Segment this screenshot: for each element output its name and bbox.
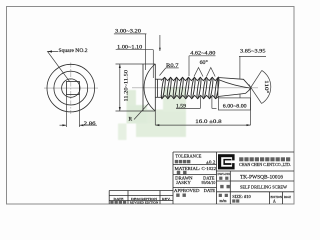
svg-text:110°: 110° [263, 80, 268, 93]
head diameter extension lines [116, 63, 156, 65]
svg-text:SELF DRILLING SCREW: SELF DRILLING SCREW [240, 184, 288, 189]
svg-text:PAGE: PAGE [284, 195, 291, 199]
svg-text:±0.2: ±0.2 [206, 159, 215, 164]
thread crest zigzag top [161, 77, 218, 80]
company logo [218, 154, 236, 169]
head bearing face [154, 64, 156, 111]
text 修改日期 (CJK simulated) [110, 201, 113, 204]
vertical centerline [70, 63, 72, 115]
svg-text:6.00~8.00: 6.00~8.00 [223, 105, 247, 110]
svg-text:R: R [129, 117, 133, 123]
text 檢圖 (CJK simulated) [176, 194, 179, 197]
horizontal centerline [44, 87, 98, 89]
middle circle [54, 71, 88, 105]
head diameter dimension line [119, 64, 121, 111]
head dome arc [144, 64, 155, 111]
drawing frame border [7, 7, 295, 205]
L mark [211, 96, 213, 108]
svg-text:60°: 60° [200, 61, 208, 66]
svg-text:TK-PWSQB-10016: TK-PWSQB-10016 [240, 175, 284, 180]
110 degree fan [249, 70, 262, 90]
text 圖號 (CJK simulated) [219, 177, 222, 180]
drill point [217, 78, 219, 97]
svg-text:A: A [273, 200, 276, 204]
thread helix lenses [161, 77, 220, 99]
green watermark blocks [0, 0, 1, 1]
text 一般公差 (CJK simulated) [175, 160, 178, 163]
axis centerline [132, 87, 258, 89]
inner circle [62, 79, 80, 97]
text 材質 (CJK simulated) [177, 171, 180, 174]
neck bottom line [155, 96, 161, 98]
svg-text:MATERIAL: C-1022: MATERIAL: C-1022 [175, 166, 217, 171]
svg-text:REV.: REV. [162, 197, 171, 201]
svg-text:APPROVED: APPROVED [174, 188, 200, 193]
company name chinese (CJK simulated) [239, 157, 243, 161]
svg-text:TOLERANCE: TOLERANCE [175, 154, 201, 159]
neck top line [155, 78, 161, 80]
svg-text:Square NO.2: Square NO.2 [59, 49, 89, 54]
svg-text:16.0 ±0.8: 16.0 ±0.8 [195, 119, 222, 125]
extension from thread [217, 97, 219, 98]
thread crest zigzag bottom [161, 95, 218, 98]
dimension line 2.86 [60, 124, 67, 126]
dimension box 6.00~8.00 [218, 98, 250, 110]
text 單位 (CJK simulated) [219, 194, 222, 197]
overall length dimension 16.0 [154, 111, 156, 125]
svg-text:EDITION: EDITION [271, 195, 283, 199]
flute curve [219, 80, 251, 88]
outer circle [47, 64, 95, 112]
svg-text:3.85~3.95: 3.85~3.95 [240, 50, 266, 55]
neck face [157, 79, 159, 97]
svg-text:R0.7: R0.7 [166, 64, 179, 69]
R leader [134, 104, 149, 120]
text 規格 (CJK simulated) [232, 199, 235, 202]
square recess [66, 82, 79, 95]
head flat face [142, 64, 144, 111]
svg-text:DATE: DATE [204, 188, 216, 193]
text 品名 (CJK simulated) [220, 185, 223, 188]
svg-text:2.86: 2.86 [84, 121, 96, 127]
svg-text:11.20~11.50: 11.20~11.50 [125, 69, 130, 101]
svg-text:SIZE: #10: SIZE: #10 [232, 195, 251, 199]
leader to square [48, 52, 70, 82]
svg-text:m/m: m/m [220, 199, 227, 203]
svg-text:DWG.NO.: DWG.NO. [218, 172, 231, 176]
svg-text:DATE: DATE [114, 197, 124, 201]
svg-text:95/04/10: 95/04/10 [202, 180, 216, 185]
svg-text:JASKY: JASKY [176, 180, 191, 185]
extension lines from square [65, 95, 67, 127]
svg-text:REVISED EDITION: REVISED EDITION [130, 201, 159, 205]
